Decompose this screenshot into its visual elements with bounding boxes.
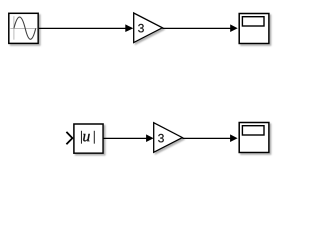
wire: Abs to Gain1 <box>103 137 147 139</box>
arrowhead at Gain input <box>125 24 133 32</box>
scope screen <box>242 17 264 26</box>
arrowhead at Scope1 input <box>230 134 238 142</box>
scope1 screen <box>242 126 264 135</box>
wire: Gain1 to Scope1 <box>182 137 230 139</box>
Gain block (triangle, value 3) <box>134 13 163 43</box>
Sine Wave source block <box>9 13 38 43</box>
wire: Sine Wave to Gain <box>39 27 127 29</box>
wire: Gain to Scope <box>162 27 231 29</box>
gain value label 3 <box>138 24 144 32</box>
Abs block |u| <box>74 124 103 153</box>
Gain1 block (triangle, value 3) <box>154 123 183 153</box>
Scope1 block (bottom) <box>239 123 269 153</box>
abs label u <box>83 134 90 141</box>
unconnected input port chevron <box>66 132 72 144</box>
sine icon axes <box>10 16 36 40</box>
sine icon curve <box>14 17 36 39</box>
arrowhead at Scope input <box>230 24 238 32</box>
abs label right bar <box>93 131 96 144</box>
gain1 value label 3 <box>158 134 164 143</box>
Scope block (top) <box>239 14 269 44</box>
arrowhead at Gain1 input <box>146 134 154 142</box>
abs label left bar <box>80 131 83 144</box>
